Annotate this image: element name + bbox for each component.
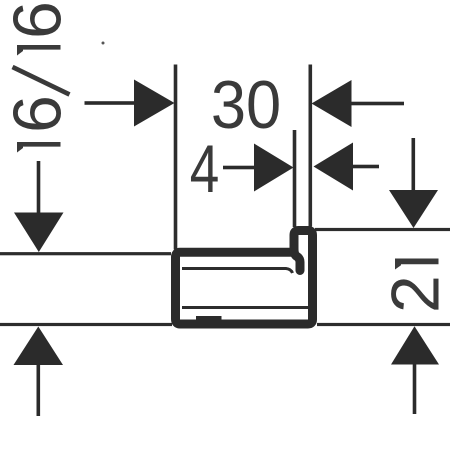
dimension arrow right-pointing (4 left) — [223, 144, 294, 192]
svg-text:6: 6 — [0, 1, 76, 39]
profile inner line top — [182, 269, 293, 274]
dimension arrow up (16/16, lower) — [14, 327, 64, 417]
wall line left bottom — [0, 323, 172, 326]
svg-text:4: 4 — [190, 131, 220, 207]
svg-text:2: 2 — [378, 275, 450, 313]
svg-text:6: 6 — [0, 95, 76, 133]
dimension arrow right-pointing (30 left) — [85, 80, 175, 127]
extension line right (30/4) — [309, 65, 313, 227]
small speck — [102, 42, 105, 45]
wall line right top — [315, 228, 450, 231]
profile inner line bottom — [182, 306, 308, 309]
dimension arrow left-pointing (4 right) — [314, 143, 380, 191]
wall line right bottom — [317, 323, 450, 326]
dimension arrow down (16/16, upper) — [14, 161, 64, 252]
extension line left (30) — [174, 65, 178, 250]
dimension arrow up (21 lower) — [391, 326, 439, 414]
svg-text:30: 30 — [211, 67, 281, 143]
dimension arrow down (21 upper) — [389, 138, 438, 228]
profile hook lip — [294, 249, 300, 271]
profile clip bump — [196, 316, 222, 322]
dimension arrow left-pointing (30 right) — [312, 80, 405, 127]
dimension label 16/16 (rotated) — [0, 1, 76, 152]
profile outline (thick channel section) — [176, 231, 313, 325]
extension line middle (4) — [293, 130, 297, 227]
wall line left top — [0, 252, 171, 255]
